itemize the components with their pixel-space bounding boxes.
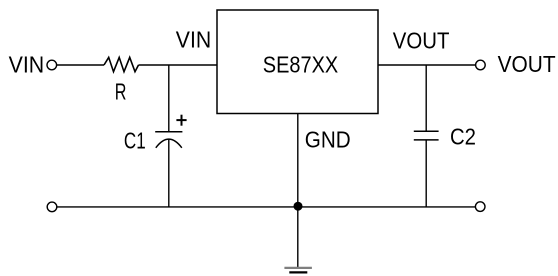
wire node B down to C2 [425,65,427,131]
wire GND pin down through rail to ground [297,114,299,268]
wire C2 to ground rail [425,140,427,207]
capacitor C1 (polarized) [155,132,182,148]
terminal VOUT (output, open circle) [476,60,486,70]
wire input terminal to resistor [57,64,104,66]
svg-text:VIN: VIN [176,27,211,53]
wire resistor to regulator VIN pin [139,64,218,66]
wire regulator VOUT pin to output terminal [378,64,476,66]
regulator U1 SE87XX (box) [217,10,378,114]
terminal VIN (input, open circle) [47,60,57,70]
terminal (bottom right, open circle) [475,202,485,212]
junction dot (rail / GND wire) [294,202,303,211]
svg-text:C2: C2 [450,124,476,150]
svg-text:SE87XX: SE87XX [263,51,339,77]
wire C1 to ground rail [168,139,170,207]
svg-text:GND: GND [305,127,351,153]
svg-text:VOUT: VOUT [498,51,556,77]
resistor R [104,57,139,71]
label + (C1 polarity) [176,115,186,126]
terminal (bottom left, open circle) [47,202,57,212]
svg-text:VOUT: VOUT [393,28,450,54]
svg-text:C1: C1 [124,127,146,153]
capacitor C2 [414,131,439,140]
svg-text:R: R [115,79,127,105]
ground rail (bottom wire) [57,206,475,208]
wire node A down to C1 [168,65,170,132]
ground symbol [284,268,312,273]
svg-text:VIN: VIN [9,51,45,77]
